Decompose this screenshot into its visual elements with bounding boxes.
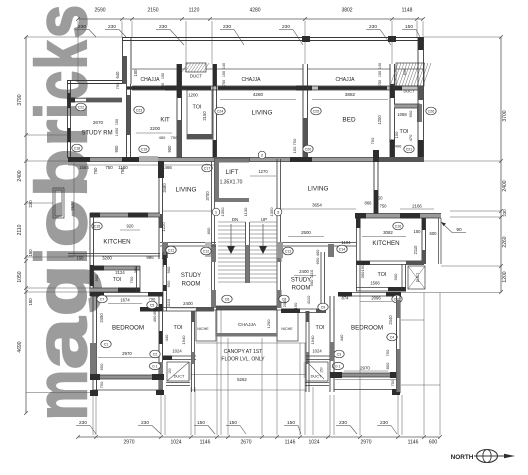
wall x215 vertical xyxy=(212,64,214,158)
kitchen otla right edge xyxy=(438,218,440,264)
bottom tick x300 xyxy=(298,435,302,439)
wall y159 black b xyxy=(122,157,139,162)
top tick x182 xyxy=(180,17,184,21)
bottom extension x424 xyxy=(423,293,425,436)
svg-text:4280: 4280 xyxy=(249,8,260,14)
marker C9 xyxy=(318,303,328,311)
svg-text:650: 650 xyxy=(408,110,413,117)
balcony edge left x74 xyxy=(73,161,75,256)
svg-text:c: c xyxy=(23,71,102,100)
bottom tick x161 xyxy=(159,435,163,439)
marker C24 xyxy=(215,107,225,115)
svg-text:KITCHEN: KITCHEN xyxy=(103,239,130,246)
svg-text:2124: 2124 xyxy=(115,270,125,275)
svg-text:650: 650 xyxy=(166,280,171,287)
wall toi-right left x308 xyxy=(305,311,307,392)
svg-text:470: 470 xyxy=(408,134,413,141)
marker C19 xyxy=(139,145,149,153)
svg-text:1050: 1050 xyxy=(269,207,274,217)
marker C1 xyxy=(101,340,111,348)
svg-text:KIT: KIT xyxy=(160,118,170,124)
duct top-right box xyxy=(396,63,424,86)
marker C7 xyxy=(97,295,107,303)
column right wall xyxy=(417,104,422,122)
svg-text:3700: 3700 xyxy=(502,110,508,121)
grid circle 3 xyxy=(274,208,282,216)
wall kit/study divider x128 xyxy=(126,84,128,158)
top tick x122 xyxy=(120,17,124,21)
marker C5 xyxy=(147,301,157,309)
wall x305 vertical xyxy=(302,64,304,161)
svg-text:2670: 2670 xyxy=(93,120,104,125)
svg-text:C11: C11 xyxy=(168,248,174,252)
wall study-rm top xyxy=(67,97,122,99)
svg-text:1024: 1024 xyxy=(172,349,182,354)
svg-text:1146: 1146 xyxy=(200,440,211,446)
wall toi-left right x194 xyxy=(191,311,193,392)
grid circle 2 xyxy=(258,151,266,159)
svg-text:C1: C1 xyxy=(104,342,109,346)
svg-text:230: 230 xyxy=(28,200,33,208)
marker C13 top xyxy=(283,247,293,255)
svg-text:650: 650 xyxy=(315,257,320,264)
svg-text:1270: 1270 xyxy=(258,169,268,174)
marker C25 xyxy=(311,107,321,115)
svg-text:1940: 1940 xyxy=(181,335,186,345)
svg-text:750: 750 xyxy=(105,165,113,170)
bottom extension x165 xyxy=(164,395,166,435)
svg-text:1566: 1566 xyxy=(370,281,380,286)
chajja bottom strip xyxy=(216,310,277,336)
wall study-right top xyxy=(281,242,356,244)
svg-text:866: 866 xyxy=(365,201,373,206)
marker C22 xyxy=(76,103,86,111)
wall y159 black c xyxy=(214,157,250,162)
svg-text:C6: C6 xyxy=(225,297,230,301)
bedroom-left top wall xyxy=(90,292,163,294)
bottom tick x360 xyxy=(358,435,362,439)
bottom tick x217 xyxy=(215,435,219,439)
toi kr bottom wall xyxy=(356,287,406,289)
wall study-left left x165 xyxy=(162,252,164,311)
marker C2 xyxy=(150,350,160,358)
svg-text:230: 230 xyxy=(502,209,507,217)
svg-text:300: 300 xyxy=(133,266,138,273)
svg-text:k: k xyxy=(23,41,102,69)
svg-text:5262: 5262 xyxy=(237,377,247,382)
svg-text:TOI: TOI xyxy=(316,325,325,331)
svg-text:i: i xyxy=(23,103,102,119)
svg-text:150: 150 xyxy=(28,249,33,257)
svg-text:140: 140 xyxy=(378,63,382,69)
svg-text:750: 750 xyxy=(385,349,390,356)
left extension y392.5 xyxy=(26,392,93,394)
svg-text:440: 440 xyxy=(164,334,169,341)
svg-text:1200: 1200 xyxy=(266,319,271,329)
marker C20 xyxy=(303,145,313,153)
svg-text:C21: C21 xyxy=(406,147,413,151)
top tick x392 xyxy=(390,17,394,21)
svg-text:900: 900 xyxy=(167,145,172,153)
chajja top edge line xyxy=(132,68,186,70)
wall study-rm top step xyxy=(67,80,122,82)
svg-text:TOI: TOI xyxy=(378,272,387,278)
svg-text:900: 900 xyxy=(94,274,99,281)
svg-text:CHAJJA: CHAJJA xyxy=(141,77,161,83)
wall bedroom-right left x332 xyxy=(329,296,331,392)
svg-text:150: 150 xyxy=(293,302,298,309)
svg-text:796: 796 xyxy=(149,297,156,302)
left tick y37 xyxy=(24,35,28,39)
right extension y37 xyxy=(424,36,501,38)
wall x376 vertical xyxy=(373,161,375,214)
canopy outline xyxy=(196,342,306,344)
svg-text:150: 150 xyxy=(161,73,165,79)
wall right outer upper xyxy=(417,37,419,161)
svg-text:2110: 2110 xyxy=(17,224,23,235)
wall y159 black d xyxy=(290,157,312,162)
svg-text:150: 150 xyxy=(378,71,382,77)
svg-text:3200: 3200 xyxy=(102,256,112,261)
svg-text:900: 900 xyxy=(114,145,119,153)
bottom dimension line xyxy=(78,436,440,438)
svg-text:1120: 1120 xyxy=(189,8,200,14)
svg-text:150: 150 xyxy=(320,367,324,373)
bottom tick x228 xyxy=(226,435,230,439)
bottom extension x313 xyxy=(312,387,314,435)
left extension y135 xyxy=(26,134,68,136)
left tick y257 xyxy=(24,255,28,259)
right extension y217 xyxy=(450,216,501,218)
top tick x132 xyxy=(130,17,134,21)
wall upper-left vertical xyxy=(122,37,124,84)
svg-text:2590: 2590 xyxy=(94,8,105,14)
svg-text:TOI: TOI xyxy=(193,105,202,111)
svg-text:C12: C12 xyxy=(203,249,210,253)
svg-text:BEDROOM: BEDROOM xyxy=(351,325,383,332)
right extension y161 xyxy=(424,160,501,162)
svg-text:750: 750 xyxy=(115,82,120,89)
svg-text:DUCT: DUCT xyxy=(416,273,420,282)
svg-text:230: 230 xyxy=(78,24,86,30)
svg-text:750: 750 xyxy=(93,167,98,175)
svg-text:LIVING: LIVING xyxy=(176,187,197,194)
svg-text:C25: C25 xyxy=(313,109,320,113)
bottom extension x191 xyxy=(190,387,192,435)
svg-text:150: 150 xyxy=(77,256,85,261)
svg-text:2670: 2670 xyxy=(240,440,251,446)
bottom tick x277 xyxy=(275,435,279,439)
svg-text:1200: 1200 xyxy=(377,115,382,125)
svg-text:206: 206 xyxy=(282,300,287,307)
svg-text:1584: 1584 xyxy=(79,165,89,170)
svg-text:1146: 1146 xyxy=(285,440,296,446)
svg-text:750: 750 xyxy=(99,381,104,388)
svg-text:230: 230 xyxy=(79,420,87,426)
svg-text:1940: 1940 xyxy=(310,335,315,345)
svg-text:140: 140 xyxy=(222,63,226,69)
svg-text:150: 150 xyxy=(389,139,395,143)
svg-text:2500: 2500 xyxy=(301,230,311,235)
svg-text:230: 230 xyxy=(339,420,347,426)
svg-text:KITCHEN: KITCHEN xyxy=(372,240,399,247)
bottom extension x195 xyxy=(194,387,196,435)
wall study-rm left xyxy=(67,80,69,158)
svg-text:150: 150 xyxy=(222,71,226,77)
column stair right a xyxy=(277,244,282,262)
svg-text:1.35X1.70: 1.35X1.70 xyxy=(220,180,243,186)
svg-text:150: 150 xyxy=(168,368,172,374)
svg-text:2450: 2450 xyxy=(99,313,104,323)
marker C26 xyxy=(426,107,436,115)
svg-text:750: 750 xyxy=(129,276,134,283)
svg-text:1130: 1130 xyxy=(243,207,248,216)
left tick y413 xyxy=(24,411,28,415)
wall stair right x279 xyxy=(276,159,278,308)
svg-text:2260: 2260 xyxy=(502,236,508,247)
svg-text:2166: 2166 xyxy=(412,204,422,209)
svg-text:1674: 1674 xyxy=(120,298,130,303)
wall study-left top xyxy=(160,242,216,244)
bottom extension x228 xyxy=(227,338,229,435)
svg-text:UP: UP xyxy=(261,217,267,222)
svg-text:C24: C24 xyxy=(217,109,224,113)
bottom extension x440 xyxy=(439,293,441,436)
svg-text:150: 150 xyxy=(394,131,399,138)
bottom extension x305 xyxy=(304,343,306,435)
north symbol xyxy=(477,450,498,463)
marker C6 xyxy=(222,295,232,303)
marker C14 top xyxy=(337,245,347,253)
svg-text:230: 230 xyxy=(282,24,290,30)
top extension x122 xyxy=(121,21,123,37)
svg-text:1200: 1200 xyxy=(502,271,508,282)
svg-text:C15: C15 xyxy=(94,224,101,228)
bedroom-left outer wall3 xyxy=(93,389,163,391)
toi upper-left box xyxy=(187,90,212,139)
wall study-left bottom xyxy=(140,307,214,309)
svg-text:STUDY RM: STUDY RM xyxy=(81,131,112,137)
svg-text:2440: 2440 xyxy=(388,315,393,325)
right tick y266 xyxy=(499,264,503,268)
marker C11 top xyxy=(166,246,176,254)
bottom extension x161 xyxy=(160,395,162,435)
svg-text:4690: 4690 xyxy=(17,341,23,352)
svg-text:DUCT: DUCT xyxy=(174,374,185,379)
duct right-lower box xyxy=(306,362,328,381)
left extension y161 xyxy=(26,160,68,162)
dim line y209 living-right xyxy=(281,208,356,210)
svg-text:C5: C5 xyxy=(150,303,155,307)
kitchen-left bottom line xyxy=(68,253,160,255)
bottom extension x402 xyxy=(401,395,403,435)
bedroom-left bottom wall xyxy=(93,375,163,379)
svg-text:150: 150 xyxy=(405,24,413,30)
top extension x212 xyxy=(211,21,213,64)
main wall y88 black b xyxy=(296,86,312,91)
svg-text:150: 150 xyxy=(133,69,138,77)
svg-text:NORTH: NORTH xyxy=(451,454,474,461)
svg-text:900: 900 xyxy=(393,273,398,280)
stair treads left flight xyxy=(218,221,246,223)
svg-text:150: 150 xyxy=(287,420,295,426)
stair center stringer xyxy=(245,222,247,283)
main wall y88 xyxy=(132,86,424,90)
svg-text:874: 874 xyxy=(342,296,350,301)
wall bedroom-left right x161 xyxy=(158,296,160,391)
right dimension line xyxy=(500,37,502,292)
svg-text:150: 150 xyxy=(414,229,422,234)
bottom extension x93 xyxy=(92,392,94,435)
svg-text:400: 400 xyxy=(152,315,157,322)
stair hall bottom wall xyxy=(216,306,277,310)
bottom extension x398 xyxy=(397,395,399,435)
wall y159 black e xyxy=(375,157,424,162)
svg-text:DUCT: DUCT xyxy=(403,89,415,94)
top extension x305 xyxy=(304,21,306,64)
niche right box xyxy=(277,310,298,341)
svg-text:750: 750 xyxy=(390,379,395,386)
svg-text:3480: 3480 xyxy=(162,183,167,193)
bottom extension x217 xyxy=(216,310,218,435)
svg-text:90: 90 xyxy=(456,227,462,233)
top tick x305 xyxy=(303,17,307,21)
wall y159 main xyxy=(68,158,424,162)
top dimension line xyxy=(78,18,423,20)
bottom extension x300 xyxy=(299,343,301,435)
bottom tick x424 xyxy=(422,435,426,439)
marker C15 xyxy=(92,222,102,230)
marker C21 xyxy=(404,145,414,153)
svg-text:NICHE: NICHE xyxy=(281,327,293,331)
wall top outer xyxy=(122,37,424,39)
right tick y292 xyxy=(499,290,503,294)
svg-text:1146: 1146 xyxy=(408,440,419,446)
stair arrow down-left flight xyxy=(230,224,232,248)
marker C16 xyxy=(393,222,403,230)
bedroom-right outer wall3 xyxy=(334,389,400,391)
svg-text:150: 150 xyxy=(115,119,119,125)
svg-text:2400: 2400 xyxy=(502,180,508,191)
svg-text:1024: 1024 xyxy=(308,440,319,446)
left dimension line xyxy=(25,37,27,413)
svg-text:1150: 1150 xyxy=(118,165,128,170)
bedroom-right top wall xyxy=(338,292,401,294)
svg-text:750: 750 xyxy=(292,138,297,145)
svg-text:690: 690 xyxy=(403,69,407,75)
svg-text:2400: 2400 xyxy=(183,301,193,306)
svg-text:FLOOR LVL. ONLY: FLOOR LVL. ONLY xyxy=(221,357,265,363)
bottom tick x262 xyxy=(260,435,264,439)
marker C18 xyxy=(72,144,82,152)
column stair left a xyxy=(211,244,216,262)
svg-text:DUCT: DUCT xyxy=(190,74,203,79)
top tick x210 xyxy=(208,17,212,21)
svg-text:2096: 2096 xyxy=(371,296,381,301)
svg-text:1200: 1200 xyxy=(188,93,198,98)
svg-text:TOI: TOI xyxy=(400,129,409,135)
svg-text:b 1: b 1 xyxy=(153,364,158,368)
svg-text:230: 230 xyxy=(108,24,116,30)
wall study-right right x322 xyxy=(320,252,322,311)
svg-text:2620: 2620 xyxy=(70,201,75,211)
svg-text:2150: 2150 xyxy=(147,8,158,14)
svg-text:150: 150 xyxy=(360,264,365,271)
svg-text:996: 996 xyxy=(146,255,154,260)
svg-text:900: 900 xyxy=(166,266,171,273)
top tick x423 xyxy=(421,17,425,21)
bottom tick x328 xyxy=(326,435,330,439)
left extension y203 xyxy=(26,202,53,204)
kitchen-right bottom wall xyxy=(356,260,424,262)
duct right-mid box xyxy=(408,266,425,289)
svg-text:C19: C19 xyxy=(141,147,148,151)
watermark magicbricks xyxy=(23,5,102,420)
right extension y292.5 xyxy=(400,292,501,294)
svg-text:DUCT: DUCT xyxy=(311,374,322,379)
marker C13 xyxy=(283,247,293,255)
svg-text:300: 300 xyxy=(360,271,365,278)
left extension y292 xyxy=(26,291,90,293)
wall x404 vertical xyxy=(401,264,403,291)
bottom extension x360 xyxy=(359,291,361,435)
svg-text:1220: 1220 xyxy=(161,222,166,232)
svg-text:750: 750 xyxy=(171,135,178,140)
svg-text:1104: 1104 xyxy=(341,240,351,245)
svg-text:s: s xyxy=(23,5,102,38)
toi small-left bottom wall xyxy=(90,288,140,292)
svg-text:400: 400 xyxy=(315,249,320,256)
bottom extension x277 xyxy=(276,310,278,435)
marker C14 xyxy=(337,245,347,253)
right extension y266 xyxy=(441,265,501,267)
wall study-right bottom xyxy=(281,308,326,310)
svg-text:C20: C20 xyxy=(305,147,312,151)
svg-text:CHAJJA: CHAJJA xyxy=(336,77,356,83)
svg-text:1050: 1050 xyxy=(17,271,23,282)
left tick y135 xyxy=(24,133,28,137)
svg-text:2400: 2400 xyxy=(299,269,309,274)
svg-text:TOI: TOI xyxy=(174,325,183,331)
svg-text:150: 150 xyxy=(197,420,205,426)
bottom extension x330 xyxy=(329,395,331,435)
right tick y217 xyxy=(499,215,503,219)
svg-text:750: 750 xyxy=(378,80,382,86)
bottom extension x221 xyxy=(220,310,222,435)
svg-text:CHAJJA: CHAJJA xyxy=(238,322,257,328)
svg-text:3790: 3790 xyxy=(17,94,23,105)
main wall y88 black c xyxy=(318,86,387,89)
svg-text:498: 498 xyxy=(152,308,157,315)
bottom tick x440 xyxy=(438,435,442,439)
toi right wall y106 xyxy=(394,104,420,108)
left extension y257 xyxy=(26,256,74,258)
svg-text:C7: C7 xyxy=(100,297,105,301)
svg-text:2970: 2970 xyxy=(123,440,134,446)
wall kitchen-left right x161 xyxy=(158,161,160,259)
wall left outer lower x92 xyxy=(92,296,94,393)
lift shaft top wall xyxy=(215,159,249,163)
marker b2 xyxy=(332,362,343,369)
svg-text:2970: 2970 xyxy=(122,351,132,356)
svg-text:C3: C3 xyxy=(337,352,342,356)
right tick y161 xyxy=(499,159,503,163)
right tick y211 xyxy=(499,209,503,213)
column stair right b xyxy=(277,290,282,308)
svg-text:ROOM: ROOM xyxy=(292,286,311,292)
wall lobby left x213 xyxy=(211,162,213,308)
svg-text:850: 850 xyxy=(385,362,390,369)
